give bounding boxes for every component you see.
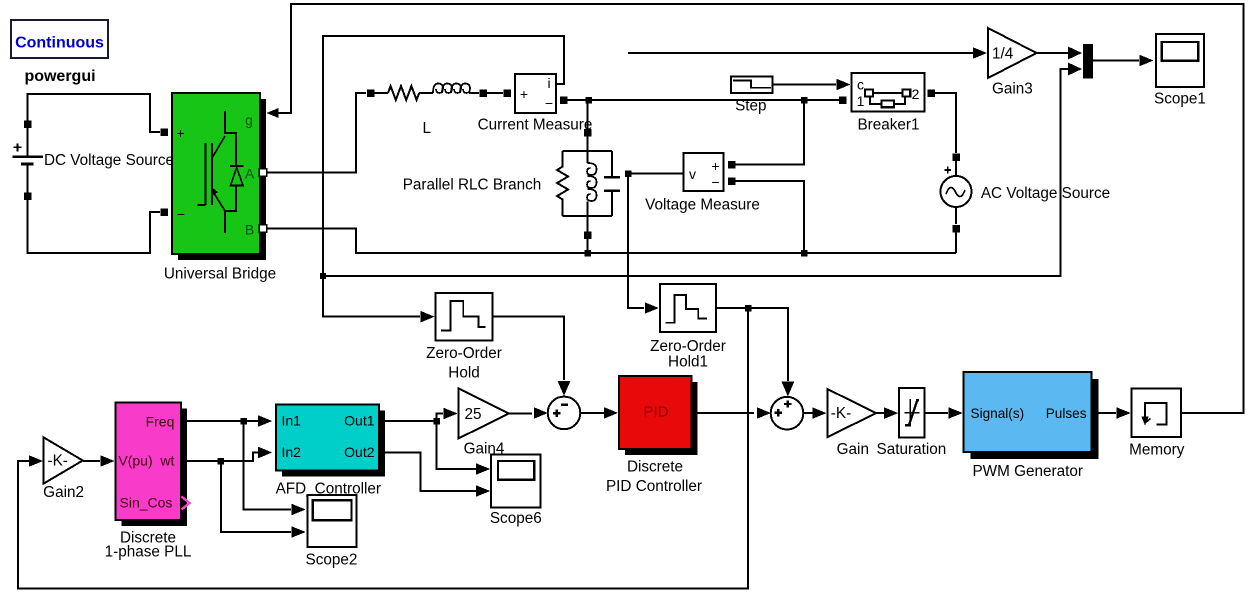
wire into resistor [374, 92, 388, 94]
wire v signal to Gain3 [628, 52, 973, 54]
svg-text:In2: In2 [282, 444, 302, 460]
svg-text:Voltage Measure: Voltage Measure [645, 197, 760, 214]
wire DC- to bridge [28, 196, 161, 253]
svg-text:wt: wt [159, 453, 174, 469]
RLC top rail [563, 150, 612, 152]
arrow into PID [604, 407, 618, 419]
Gain2 triangle [44, 437, 83, 483]
svg-text:Step: Step [735, 97, 766, 114]
svg-text:Scope2: Scope2 [306, 551, 358, 568]
Scope1 block [1156, 34, 1204, 87]
wire Freq to In1 [181, 420, 258, 422]
wire VM+ to breaker input node [736, 100, 805, 165]
RLC capacitor leg top [611, 151, 613, 176]
arrow into Gain2 [29, 455, 43, 467]
wire RLC stem to rail [587, 136, 589, 152]
wire wt branch to Scope2 [221, 461, 291, 532]
svg-text:−: − [711, 174, 719, 190]
wire step to breaker c [773, 84, 836, 86]
powergui annotation box [11, 20, 108, 58]
AFD_Controller block [276, 405, 379, 471]
arrow into breaker c [837, 79, 851, 91]
arrow into Zero-Order Hold [421, 311, 435, 323]
Zero-Order Hold1 block [660, 284, 716, 332]
wire RLC bottom stem [587, 216, 589, 232]
svg-text:Zero-Order: Zero-Order [426, 345, 502, 362]
node junction Freq branch [240, 418, 247, 425]
svg-text:In1: In1 [282, 413, 302, 429]
arrow into Gain4 [444, 408, 458, 420]
svg-text:Out1: Out1 [344, 413, 375, 429]
inductor of L branch [433, 84, 443, 94]
AC Voltage Source circle [941, 176, 972, 207]
node current measure output port [560, 96, 568, 104]
wire current measure to breaker [567, 99, 839, 101]
wire v signal [628, 173, 684, 175]
node bridge + input port [160, 128, 168, 136]
node VM- port [728, 177, 736, 185]
arrow into sum2 left [757, 407, 771, 419]
node RLC bottom port [584, 231, 592, 239]
AC source plus sign [945, 167, 952, 174]
svg-text:A: A [245, 166, 255, 182]
wire AC- lead [955, 207, 957, 224]
wire RLC top stem [587, 100, 589, 130]
wire VM- to B rail [736, 181, 805, 253]
svg-text:25: 25 [465, 406, 482, 423]
Memory icon arrowhead [1141, 417, 1148, 426]
svg-text:V(pu): V(pu) [118, 453, 152, 469]
svg-text:−: − [545, 95, 553, 111]
svg-text:B: B [245, 222, 254, 238]
arrow into mux bottom [1068, 63, 1082, 76]
svg-text:g: g [245, 112, 253, 128]
wire inductor out [469, 92, 479, 94]
wire feedback to Gain2 [18, 308, 748, 589]
node junction RLC on B rail [584, 250, 591, 257]
Scope2 block [308, 495, 357, 547]
arrow into Memory [1117, 407, 1131, 419]
arrow into PWM [949, 407, 963, 419]
wire resistor to inductor [419, 92, 433, 94]
Gain triangle [827, 389, 876, 437]
arrow into Saturation [884, 407, 898, 419]
node breaker output port [927, 89, 935, 97]
RLC bottom rail [563, 215, 612, 217]
wire PWM to Memory [1091, 412, 1116, 414]
node AC- terminal [952, 225, 960, 233]
svg-text:PWM Generator: PWM Generator [972, 463, 1083, 480]
svg-text:Gain: Gain [837, 441, 869, 458]
Discrete 1-phase PLL block [116, 403, 182, 521]
Voltage Measure block [684, 153, 724, 191]
wire Freq branch to Scope2 [244, 421, 291, 510]
sum1 circle [548, 397, 581, 430]
arrow into Scope6 top [476, 463, 490, 475]
wire v signal to ZOH1 [628, 174, 644, 309]
AC source sine icon [946, 187, 965, 196]
svg-text:PID: PID [643, 404, 668, 421]
svg-text:2: 2 [912, 86, 920, 102]
wire memory feedback to gate [277, 4, 1244, 413]
arrow into Scope6 bottom [476, 485, 490, 497]
svg-text:powergui: powergui [24, 68, 95, 85]
svg-text:Breaker1: Breaker1 [857, 117, 919, 134]
resistor of L branch [388, 86, 419, 100]
Discrete PID Controller shadow [625, 382, 698, 455]
svg-text:Universal Bridge: Universal Bridge [164, 266, 276, 283]
svg-text:Zero-Order: Zero-Order [650, 338, 726, 355]
DC source battery long plate [12, 156, 42, 158]
arrow into Zero-Order Hold1 [645, 302, 659, 314]
Memory icon [1145, 403, 1167, 425]
wire Out1 to Gain4 [379, 414, 443, 422]
node bridge - input port [160, 208, 168, 216]
wire Gain to Saturation [876, 412, 884, 414]
node junction v signal [625, 170, 632, 177]
node bridge B output port [259, 225, 267, 233]
sum2 plus sign top [784, 400, 791, 407]
node DC- terminal [24, 192, 32, 200]
node DC+ terminal [24, 120, 32, 128]
svg-text:Signal(s): Signal(s) [971, 406, 1025, 421]
Saturation block [899, 388, 925, 438]
arrow into g port [267, 108, 279, 118]
svg-text:Hold: Hold [448, 365, 479, 382]
svg-text:-K-: -K- [48, 453, 68, 470]
node junction at VM+ branch [801, 97, 808, 104]
arrow into Gain3 [973, 47, 987, 59]
wire breaker to AC source [935, 93, 956, 153]
svg-text:1: 1 [857, 93, 865, 109]
svg-text:Gain3: Gain3 [992, 80, 1033, 97]
RLC inductor [587, 151, 589, 163]
Discrete PID Controller block [619, 376, 692, 449]
DC source plus sign [14, 143, 22, 151]
PWM Generator block [964, 372, 1092, 452]
svg-text:v: v [689, 166, 696, 182]
Memory block [1132, 389, 1181, 438]
svg-text:1/4: 1/4 [992, 46, 1014, 63]
svg-text:Memory: Memory [1129, 442, 1185, 459]
svg-text:c: c [857, 77, 864, 93]
node RLC top port [584, 129, 592, 137]
svg-text:Out2: Out2 [344, 444, 375, 460]
node junction feedback branch [745, 305, 752, 312]
wire DC+ to bridge [28, 94, 161, 132]
RLC capacitor plate bottom [604, 189, 620, 191]
arrow into In1 [258, 415, 272, 427]
DC source battery lead bottom [27, 165, 29, 196]
RLC capacitor plate top [604, 176, 620, 178]
svg-text:-K-: -K- [831, 405, 851, 422]
node junction wt branch [218, 458, 225, 465]
DC source battery short plate [21, 162, 33, 165]
sum2 plus sign left [775, 409, 782, 416]
wire mux to Scope1 [1093, 60, 1139, 62]
arrow into sum1 top [558, 381, 571, 396]
svg-text:1-phase PLL: 1-phase PLL [105, 544, 192, 561]
arrow into Gain [812, 407, 826, 419]
node breaker input port 1 [839, 96, 847, 104]
Scope2 screen [313, 500, 352, 520]
arrow into In2 [258, 447, 272, 459]
node L branch right port [479, 89, 487, 97]
sum2 circle [771, 397, 804, 430]
Scope1 screen [1162, 42, 1199, 61]
node current measure input port [503, 89, 511, 97]
svg-text:−: − [177, 206, 185, 222]
svg-text:L: L [422, 120, 431, 137]
wire AC to B rail [955, 231, 957, 253]
svg-text:Parallel RLC Branch: Parallel RLC Branch [403, 177, 542, 194]
svg-text:Discrete: Discrete [627, 458, 683, 475]
node bridge A output port [259, 169, 267, 177]
svg-text:Sin_Cos: Sin_Cos [120, 495, 173, 511]
svg-text:Hold1: Hold1 [668, 354, 708, 371]
arrow into Scope2 bottom [292, 526, 306, 538]
node junction Out1 branch [433, 418, 440, 425]
arrow into Scope1 [1140, 55, 1154, 67]
wire L to current measure [487, 92, 503, 94]
Universal Bridge IGBT-diode icon [198, 111, 237, 233]
wire Gain3 to mux [1037, 52, 1070, 54]
wire Out2 to Scope6 [379, 453, 476, 492]
Scope6 screen [498, 461, 534, 480]
node L branch left port [367, 89, 375, 97]
Zero-Order Hold icon [441, 301, 486, 330]
svg-text:+: + [520, 86, 528, 102]
svg-text:i: i [547, 75, 550, 91]
PWM Generator shadow [971, 379, 1099, 459]
arrow into mux top [1068, 47, 1082, 60]
wire Out1 branch to Scope6 [437, 421, 476, 469]
Step icon [733, 80, 771, 87]
svg-text:Scope1: Scope1 [1154, 91, 1206, 108]
node junction i-signal branch [320, 273, 326, 279]
sum1 plus sign [553, 410, 560, 417]
svg-text:DC Voltage Source: DC Voltage Source [44, 152, 174, 169]
svg-text:Gain2: Gain2 [43, 484, 84, 501]
node junction at RLC top [585, 97, 592, 104]
svg-text:Freq: Freq [146, 414, 175, 430]
wire Gain4 to sum1 [509, 413, 532, 415]
wire B port rail [267, 229, 956, 254]
mux block [1083, 44, 1093, 79]
PLL Sin_Cos output chevron [182, 497, 190, 510]
wire PID to sum2 [692, 412, 755, 414]
wire wt to In2 [181, 453, 258, 462]
wire ZOH to sum1 [493, 317, 565, 380]
Zero-Order Hold1 icon [666, 295, 707, 323]
sum1 minus sign [561, 403, 568, 405]
wire ZOH1 to sum2 [716, 308, 788, 381]
arrow into Scope2 top [292, 504, 306, 516]
RLC capacitor leg bottom [611, 192, 613, 217]
arrow into PLL V(pu) [101, 455, 115, 467]
svg-text:Pulses: Pulses [1046, 406, 1087, 421]
svg-text:+: + [711, 158, 719, 174]
svg-text:Scope6: Scope6 [490, 510, 542, 527]
wire sum2 to Gain [803, 412, 813, 414]
wire i signal to mux [323, 69, 1069, 276]
Step block [731, 76, 773, 93]
Scope6 block [491, 454, 540, 507]
arrow into sum1 left [534, 407, 548, 419]
Discrete 1-phase PLL shadow [122, 409, 188, 527]
node AC+ terminal [952, 153, 960, 161]
Saturation icon [905, 399, 920, 426]
Gain4 triangle [459, 388, 509, 438]
wire sum1 to PID [580, 412, 604, 414]
svg-text:Saturation: Saturation [877, 441, 947, 458]
svg-text:PID Controller: PID Controller [606, 478, 702, 495]
Current Measure block [515, 74, 556, 113]
wire RLC to B rail [587, 238, 589, 253]
Zero-Order Hold block [436, 293, 493, 341]
Breaker1 icon [870, 93, 905, 104]
RLC resistor [557, 151, 568, 216]
wire i output loop to ZOH [323, 36, 564, 317]
Universal Bridge block [172, 93, 260, 254]
Gain3 triangle [988, 28, 1037, 78]
wire A port to L branch [267, 93, 366, 173]
DC source battery lead top [27, 124, 29, 156]
wire Gain2 to PLL [83, 460, 100, 462]
svg-text:Continuous: Continuous [15, 35, 104, 52]
svg-text:AC Voltage Source: AC Voltage Source [981, 185, 1110, 202]
node junction VM- on B rail [801, 250, 808, 257]
wire Saturation to PWM [925, 412, 948, 414]
svg-text:Current Measure: Current Measure [478, 117, 593, 134]
Universal Bridge shadow [178, 99, 266, 260]
AFD_Controller shadow [282, 411, 385, 477]
node VM+ port [728, 161, 736, 169]
wire AC+ lead [955, 160, 957, 176]
svg-text:+: + [176, 125, 184, 141]
arrow into sum2 top [781, 381, 794, 396]
Breaker1 block [852, 73, 925, 111]
